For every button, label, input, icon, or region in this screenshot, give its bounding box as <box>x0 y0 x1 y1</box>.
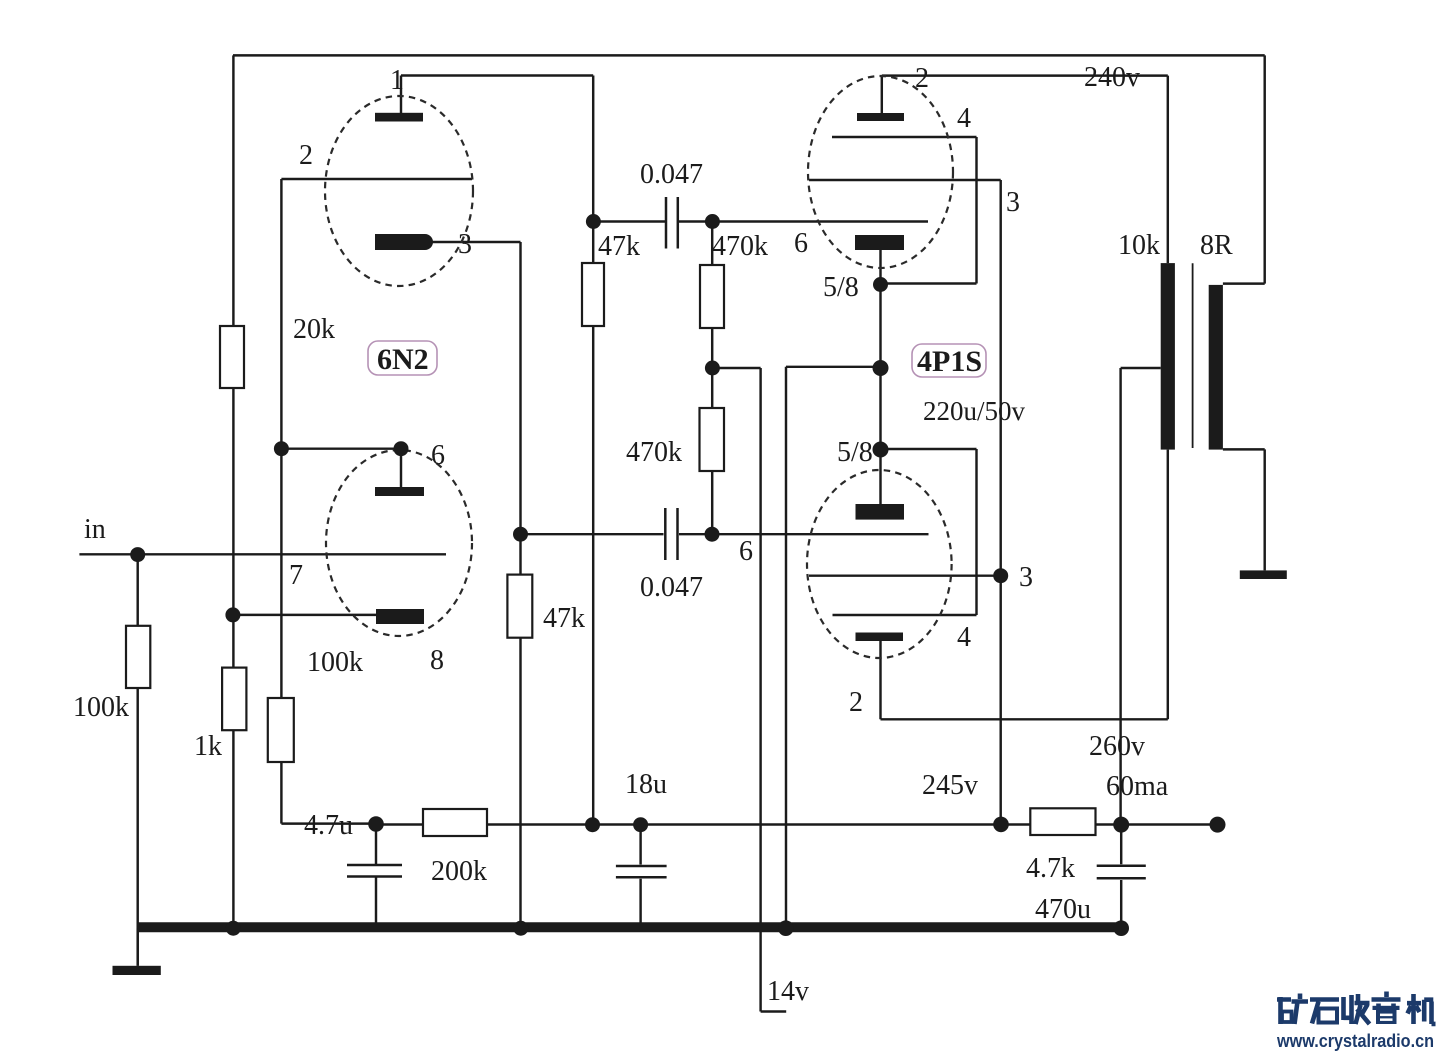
wire 4P1S pin2 to transformer primary top <box>882 74 1168 76</box>
node 470k mid junction <box>705 361 720 376</box>
capacitor 18u plates <box>616 865 667 868</box>
wire 18u cap bottom lead <box>639 879 641 928</box>
svg-text:470u: 470u <box>1035 894 1091 925</box>
wire transformer primary bottom lead <box>1167 450 1169 720</box>
svg-text:470k: 470k <box>626 437 682 468</box>
svg-text:5/8: 5/8 <box>837 437 873 468</box>
node supply terminal <box>1210 817 1226 833</box>
wire input line to lower 6N2 grid pin7 <box>79 553 446 555</box>
tube 6N2 upper cathode pin3 <box>375 234 433 250</box>
node bus follower <box>513 921 528 936</box>
wire 4P1S lower pin3 line <box>809 574 1001 576</box>
svg-text:100k: 100k <box>307 647 363 678</box>
resistor 100k input <box>126 626 150 688</box>
tube label 4P1S <box>912 344 986 377</box>
wire left rail vertical (B+ through 20k/1k) <box>232 55 234 928</box>
resistor 47k plate load <box>582 263 604 326</box>
svg-text:6: 6 <box>431 440 445 471</box>
wire top supply rail <box>233 54 1265 56</box>
node 4P1S lower pin3 <box>993 568 1008 583</box>
wire 4P1S lower anode lead down <box>879 641 881 719</box>
svg-text:8R: 8R <box>1200 230 1233 261</box>
svg-text:18u: 18u <box>625 769 667 800</box>
capacitor 470u plates <box>1097 865 1146 868</box>
svg-text:0.047: 0.047 <box>640 572 703 603</box>
node 18u junction <box>633 817 648 832</box>
wire secondary top lead <box>1223 282 1265 284</box>
svg-text:6: 6 <box>794 228 808 259</box>
svg-text:6: 6 <box>739 536 753 567</box>
capacitor 0.047 lower plates <box>664 508 667 560</box>
svg-text:20k: 20k <box>293 314 335 345</box>
svg-text:6N2: 6N2 <box>377 343 429 376</box>
node 47k drop on feedback rail <box>585 817 600 832</box>
svg-text:0.047: 0.047 <box>640 159 703 190</box>
wire lower 6N2 cathode pin8 run <box>233 614 377 616</box>
wire transformer primary top lead <box>1167 76 1169 264</box>
wire 4P1S upper pin4 drop <box>975 137 977 284</box>
node cathode pin8 junction <box>225 607 240 622</box>
node 245v junction <box>993 817 1009 833</box>
node 4P1S cathode pin5/8 lower <box>873 442 889 458</box>
node 260v junction <box>1113 817 1129 833</box>
svg-text:240v: 240v <box>1084 62 1140 93</box>
node 4P1S cathode mid <box>873 360 889 376</box>
wire 6N2 pin1 anode to 47k top <box>401 74 593 76</box>
node cap2/470k junction <box>705 527 720 542</box>
wire 470u cap top lead <box>1120 825 1122 865</box>
tube 6N2 upper triode envelope <box>325 96 473 286</box>
wire 4.7u cap bottom lead <box>375 878 377 929</box>
node lower anode link <box>394 441 409 456</box>
svg-text:8: 8 <box>430 645 444 676</box>
node input junction <box>130 547 145 562</box>
svg-text:220u/50v: 220u/50v <box>923 396 1026 426</box>
wire 6N2 upper grid line pin2 <box>281 178 472 180</box>
resistor 47k follower <box>507 575 532 638</box>
svg-text:4.7u: 4.7u <box>304 810 353 841</box>
watermark yin ri block <box>1373 1006 1400 1010</box>
svg-text:2: 2 <box>299 140 313 171</box>
wire cathode ground drop x786 <box>785 367 787 928</box>
transformer core <box>1192 263 1194 448</box>
svg-text:7: 7 <box>289 560 303 591</box>
node grid link left <box>274 441 289 456</box>
svg-text:14v: 14v <box>767 976 809 1007</box>
wire 4P1S lower pin4 riser <box>975 449 977 615</box>
wire 4P1S lower cathode to pin4 junction <box>881 448 977 450</box>
tube 6N2 upper anode plate pin1 <box>375 113 423 122</box>
svg-text:47k: 47k <box>543 603 585 634</box>
wire 4P1S upper pin3 line <box>809 179 1001 181</box>
svg-text:3: 3 <box>458 229 472 260</box>
svg-text:2: 2 <box>849 687 863 718</box>
svg-text:in: in <box>84 514 106 545</box>
node 47k/cap1 junction <box>586 214 601 229</box>
svg-text:245v: 245v <box>922 770 978 801</box>
wire input load drop x137 <box>136 554 138 966</box>
svg-text:4P1S: 4P1S <box>917 345 982 378</box>
ground left <box>113 966 161 975</box>
node bus cathode return <box>778 920 794 936</box>
svg-text:5/8: 5/8 <box>823 272 859 303</box>
watermark char shi <box>1310 1000 1339 1024</box>
svg-text:60ma: 60ma <box>1106 771 1169 802</box>
svg-text:10k: 10k <box>1118 230 1160 261</box>
wire 4.7u cap top lead <box>375 824 377 864</box>
wire lower anode pin2 run to transformer <box>881 718 1168 720</box>
wire 4P1S cathode node to x786 <box>786 366 881 368</box>
wire segment cap2 to lower grid <box>679 533 929 535</box>
capacitor 4.7u plates <box>347 864 402 867</box>
node bus 1k <box>226 921 241 936</box>
node cap1/470k junction <box>705 214 720 229</box>
wire coupling node y221 (47k to 4P1S grid pin6) <box>593 220 665 222</box>
watermark char ji <box>1407 994 1436 1024</box>
tube label 6N2 <box>368 341 437 375</box>
wire cathode-follower vertical x520 <box>519 242 521 928</box>
tube 4P1S upper envelope <box>808 76 953 268</box>
svg-text:1k: 1k <box>194 731 222 762</box>
tube 6N2 lower triode envelope <box>326 450 472 636</box>
wire 4P1S lower pin4 line <box>833 614 977 616</box>
svg-text:4.7k: 4.7k <box>1026 853 1075 884</box>
tube 4P1S lower anode plate pin2 <box>856 633 904 642</box>
wire 470k mid node to x760 <box>712 367 760 369</box>
wire 14v terminal stub <box>761 1010 787 1012</box>
svg-text:470k: 470k <box>712 231 768 262</box>
svg-text:200k: 200k <box>431 856 487 887</box>
ground speaker <box>1240 570 1287 579</box>
wire secondary bottom lead <box>1223 448 1265 450</box>
wire primary 260v tap <box>1121 367 1161 369</box>
resistor 100k cathode <box>268 698 294 762</box>
wire left ground lead <box>136 928 138 966</box>
wire feedback rail y824 <box>376 823 1218 825</box>
wire 4P1S pin3 vertical x1000 <box>999 180 1001 824</box>
wire corner to 4.7u node <box>281 822 376 824</box>
svg-text:4: 4 <box>957 622 971 653</box>
resistor 470k upper <box>700 265 724 328</box>
wire 14v measurement vertical x760 <box>759 368 761 1012</box>
resistor 470k lower <box>700 408 725 471</box>
tube 6N2 lower anode plate pin6 <box>375 487 424 496</box>
node follower tap <box>513 527 528 542</box>
wire 4P1S upper cathode lead <box>879 250 881 504</box>
tube 4P1S lower envelope <box>807 470 952 658</box>
node bus right end <box>1113 920 1129 936</box>
capacitor 0.047 upper plates <box>665 197 668 249</box>
tube 4P1S lower cathode <box>856 504 905 520</box>
svg-text:2: 2 <box>915 63 929 94</box>
tube 4P1S upper cathode <box>855 235 904 250</box>
wire right rail to secondary top <box>1263 55 1265 283</box>
ground bus (thick) <box>138 922 1121 932</box>
wire 4P1S upper pin4 line <box>832 136 977 138</box>
wire direct-coupling link y448 <box>281 447 401 449</box>
wire 6N2 upper cathode pin3 to x520 <box>430 241 521 243</box>
watermark char yin <box>1372 992 1401 1009</box>
node 4P1S cathode pin5/8 upper <box>873 277 888 292</box>
wire 4P1S upper cathode to pin4 junction <box>881 282 977 284</box>
tube 4P1S upper anode plate pin2 <box>857 113 904 121</box>
svg-text:47k: 47k <box>598 231 640 262</box>
svg-text:www.crystalradio.cn: www.crystalradio.cn <box>1276 1030 1434 1051</box>
wire secondary to speaker ground <box>1263 449 1265 570</box>
wire 4P1S upper anode lead <box>881 76 883 114</box>
transformer T1 primary winding 10k <box>1161 263 1175 450</box>
svg-text:260v: 260v <box>1089 731 1145 762</box>
resistor 1k <box>222 668 246 731</box>
wire 6N2 pin2 grid vertical x281 <box>280 179 282 449</box>
svg-text:3: 3 <box>1019 562 1033 593</box>
wire 47k/anode vertical x593 <box>592 76 594 825</box>
resistor 200k feedback <box>423 809 487 836</box>
wire 470k chain vertical x712 <box>711 222 713 535</box>
wire 470u cap bottom lead <box>1120 880 1122 928</box>
wire upper 6N2 anode lead <box>400 76 402 114</box>
wire segment cap1 to 470k node <box>679 220 929 222</box>
svg-text:4: 4 <box>957 103 971 134</box>
wire 4P1S lower grid pin6 line <box>521 533 664 535</box>
transformer secondary winding 8R <box>1209 285 1223 450</box>
wire 260v supply drop x1120 <box>1119 368 1121 824</box>
svg-text:1: 1 <box>390 65 404 96</box>
svg-text:100k: 100k <box>73 692 129 723</box>
svg-text:3: 3 <box>1006 187 1020 218</box>
resistor 4.7k supply <box>1030 808 1095 835</box>
watermark char shou <box>1344 994 1370 1024</box>
watermark char kuang <box>1277 994 1308 1025</box>
tube 6N2 lower cathode pin8 <box>376 609 424 624</box>
wire 100k cathode resistor drop x281 <box>280 449 282 824</box>
wire 18u cap top lead <box>639 825 641 865</box>
node 4.7u junction <box>368 816 384 832</box>
resistor 20k <box>220 326 244 388</box>
wire lower 6N2 anode lead <box>400 449 402 488</box>
